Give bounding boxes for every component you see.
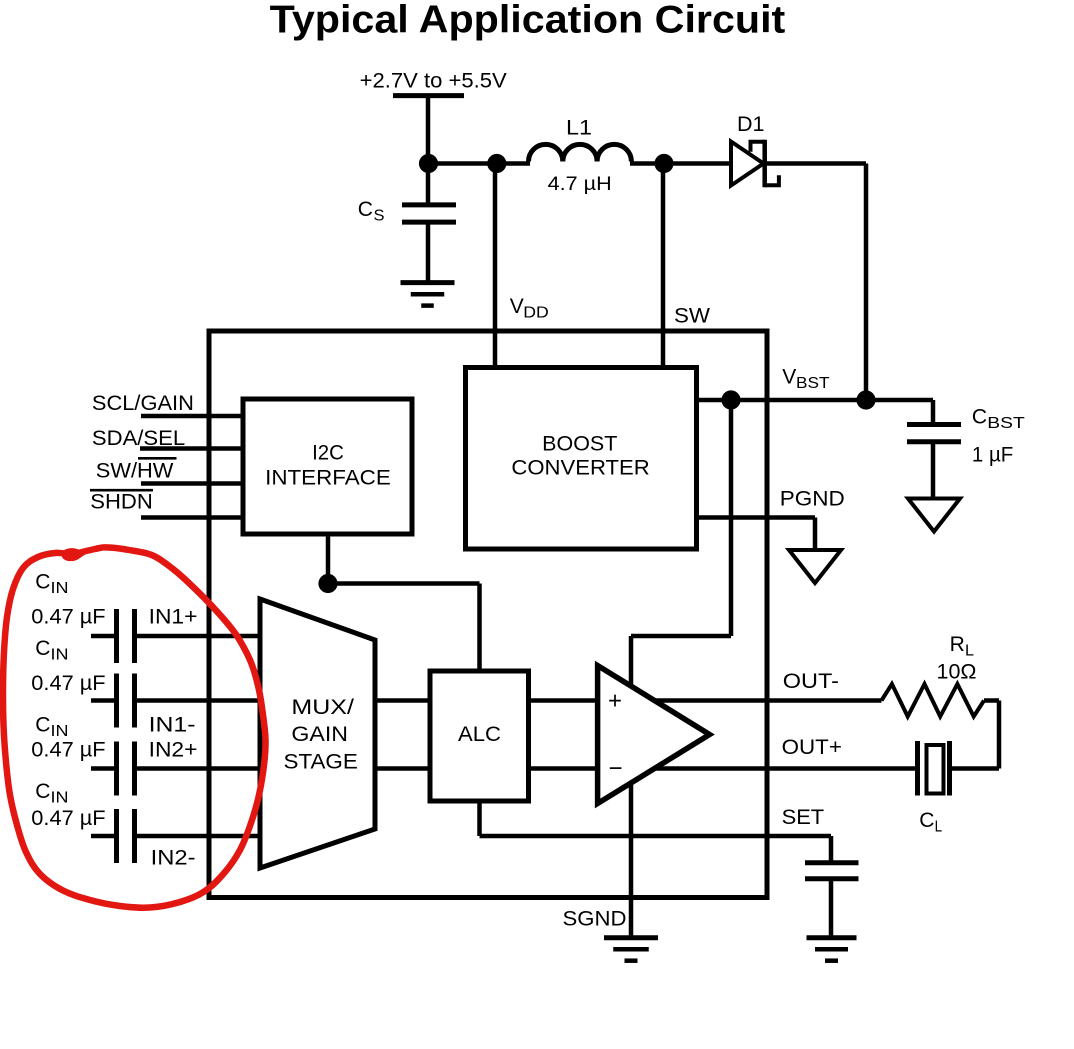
svg-text:CONVERTER: CONVERTER <box>511 456 649 479</box>
svg-text:L: L <box>935 819 943 836</box>
svg-text:BST: BST <box>987 415 1025 432</box>
svg-text:C: C <box>972 406 987 429</box>
svg-text:IN: IN <box>51 723 69 740</box>
svg-text:IN: IN <box>51 647 69 664</box>
svg-text:C: C <box>35 637 50 660</box>
svg-text:SGND: SGND <box>563 908 627 931</box>
svg-text:−: − <box>609 755 623 782</box>
svg-text:IN1+: IN1+ <box>149 606 198 629</box>
svg-text:10Ω: 10Ω <box>937 660 977 683</box>
svg-text:PGND: PGND <box>780 487 845 510</box>
svg-text:D1: D1 <box>737 113 765 136</box>
svg-text:C: C <box>35 780 50 803</box>
svg-text:S: S <box>374 208 385 225</box>
svg-text:V: V <box>782 366 796 389</box>
svg-text:BST: BST <box>796 375 830 392</box>
svg-text:SW/HW: SW/HW <box>96 459 174 482</box>
svg-text:1 µF: 1 µF <box>972 444 1013 467</box>
svg-text:SCL/GAIN: SCL/GAIN <box>92 392 194 415</box>
svg-text:INTERFACE: INTERFACE <box>265 467 391 490</box>
svg-text:0.47 µF: 0.47 µF <box>31 606 105 629</box>
svg-text:Typical Application Circuit: Typical Application Circuit <box>270 0 786 41</box>
svg-text:IN2-: IN2- <box>151 846 196 869</box>
svg-text:IN: IN <box>51 789 69 806</box>
svg-text:OUT-: OUT- <box>783 670 839 693</box>
svg-text:BOOST: BOOST <box>542 433 617 456</box>
svg-text:0.47 µF: 0.47 µF <box>31 739 105 762</box>
svg-text:V: V <box>510 295 524 318</box>
svg-text:IN1-: IN1- <box>149 713 196 736</box>
svg-text:0.47 µF: 0.47 µF <box>31 807 105 830</box>
svg-text:C: C <box>35 713 50 736</box>
svg-text:GAIN: GAIN <box>291 723 348 746</box>
svg-text:IN: IN <box>51 580 69 597</box>
svg-text:MUX/: MUX/ <box>291 696 354 719</box>
svg-text:R: R <box>950 633 965 656</box>
svg-text:SW: SW <box>674 304 710 327</box>
svg-text:L1: L1 <box>566 116 592 139</box>
svg-text:C: C <box>35 571 50 594</box>
svg-text:ALC: ALC <box>458 723 501 746</box>
svg-text:0.47 µF: 0.47 µF <box>31 672 105 695</box>
svg-text:I2C: I2C <box>312 442 344 465</box>
svg-text:DD: DD <box>523 305 549 322</box>
svg-text:SET: SET <box>782 806 825 829</box>
svg-text:4.7 µH: 4.7 µH <box>548 174 612 195</box>
svg-text:C: C <box>919 809 934 832</box>
svg-text:+2.7V to +5.5V: +2.7V to +5.5V <box>360 70 507 93</box>
svg-text:L: L <box>965 643 974 660</box>
svg-text:OUT+: OUT+ <box>782 736 842 759</box>
svg-text:IN2+: IN2+ <box>149 739 198 762</box>
svg-text:C: C <box>358 198 373 221</box>
svg-text:SDA/SEL: SDA/SEL <box>92 427 185 450</box>
svg-text:SHDN: SHDN <box>90 490 153 513</box>
svg-text:+: + <box>608 688 622 715</box>
svg-text:STAGE: STAGE <box>284 750 358 773</box>
